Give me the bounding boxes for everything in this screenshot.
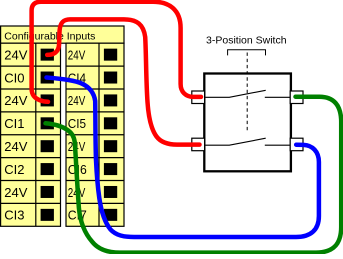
svg-text:24V: 24V [68, 47, 86, 62]
svg-text:24V: 24V [4, 185, 27, 200]
svg-text:CI2: CI2 [4, 162, 24, 177]
svg-text:3-Position Switch: 3-Position Switch [206, 34, 287, 46]
svg-text:24V: 24V [4, 93, 27, 108]
svg-text:CI0: CI0 [4, 70, 24, 85]
svg-text:CI3: CI3 [4, 208, 24, 223]
svg-text:Configurable Inputs: Configurable Inputs [4, 31, 95, 43]
svg-text:CI5: CI5 [68, 116, 86, 131]
svg-text:CI1: CI1 [4, 116, 24, 131]
svg-text:24V: 24V [68, 93, 86, 108]
svg-text:24V: 24V [4, 47, 27, 62]
svg-text:24V: 24V [4, 139, 27, 154]
